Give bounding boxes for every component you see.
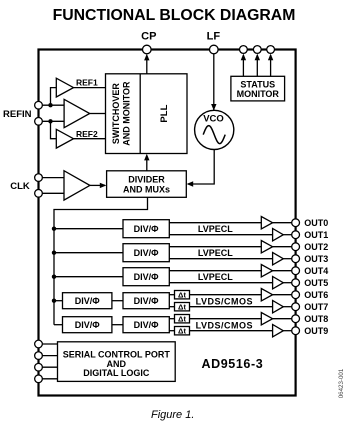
svg-text:DIVIDER: DIVIDER <box>128 175 165 185</box>
svg-text:DIV/Φ: DIV/Φ <box>134 224 160 234</box>
svg-text:OUT3: OUT3 <box>304 254 328 264</box>
svg-text:LVPECL: LVPECL <box>198 272 233 282</box>
svg-text:OUT7: OUT7 <box>304 302 328 312</box>
svg-text:CP: CP <box>141 31 156 43</box>
svg-text:REF1: REF1 <box>76 78 98 88</box>
svg-text:OUT2: OUT2 <box>304 242 328 252</box>
svg-text:FUNCTIONAL BLOCK DIAGRAM: FUNCTIONAL BLOCK DIAGRAM <box>53 7 296 24</box>
svg-text:REF2: REF2 <box>76 129 98 139</box>
svg-text:DIV/Φ: DIV/Φ <box>134 272 160 282</box>
svg-text:OUT9: OUT9 <box>304 326 328 336</box>
svg-text:Δt: Δt <box>178 326 186 335</box>
svg-text:LVPECL: LVPECL <box>198 224 233 234</box>
svg-text:MONITOR: MONITOR <box>237 89 280 99</box>
svg-text:LF: LF <box>207 31 221 43</box>
svg-text:OUT6: OUT6 <box>304 290 328 300</box>
svg-text:OUT8: OUT8 <box>304 314 328 324</box>
svg-text:DIV/Φ: DIV/Φ <box>75 320 101 330</box>
svg-text:DIV/Φ: DIV/Φ <box>134 296 160 306</box>
svg-text:LVDS/CMOS: LVDS/CMOS <box>196 321 253 331</box>
svg-text:LVDS/CMOS: LVDS/CMOS <box>196 297 253 307</box>
svg-text:CLK: CLK <box>10 181 30 192</box>
svg-text:DIGITAL LOGIC: DIGITAL LOGIC <box>83 368 150 378</box>
svg-text:REFIN: REFIN <box>3 109 32 120</box>
svg-text:VCO: VCO <box>203 113 224 124</box>
svg-text:PLL: PLL <box>159 104 170 122</box>
svg-text:06423-001: 06423-001 <box>338 368 345 398</box>
svg-text:DIV/Φ: DIV/Φ <box>75 296 101 306</box>
svg-text:AD9516-3: AD9516-3 <box>202 357 264 371</box>
svg-text:OUT1: OUT1 <box>304 230 328 240</box>
svg-text:OUT5: OUT5 <box>304 278 328 288</box>
svg-text:Δt: Δt <box>178 302 186 311</box>
svg-text:Δt: Δt <box>178 290 186 299</box>
svg-text:Δt: Δt <box>178 314 186 323</box>
svg-text:OUT4: OUT4 <box>304 266 328 276</box>
svg-text:Figure 1.: Figure 1. <box>151 409 194 421</box>
svg-text:DIV/Φ: DIV/Φ <box>134 320 160 330</box>
svg-text:DIV/Φ: DIV/Φ <box>134 248 160 258</box>
svg-text:AND MONITOR: AND MONITOR <box>122 81 132 146</box>
svg-text:AND MUXs: AND MUXs <box>123 184 170 194</box>
svg-text:SWITCHOVER: SWITCHOVER <box>111 83 121 145</box>
svg-text:LVPECL: LVPECL <box>198 248 233 258</box>
svg-text:OUT0: OUT0 <box>304 218 328 228</box>
